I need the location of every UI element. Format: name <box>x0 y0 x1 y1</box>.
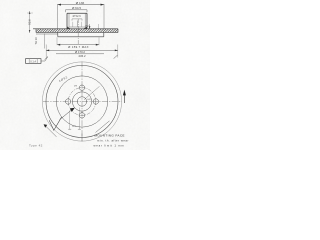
surface finish checkmark <box>49 117 61 130</box>
face arrow (dark) <box>44 124 48 128</box>
extension line right <box>103 4 105 28</box>
ext slash left <box>45 56 48 59</box>
hat inner right wall <box>84 13 86 27</box>
svg-text:Ø 159.7 MAX: Ø 159.7 MAX <box>68 45 89 49</box>
left band inner line <box>36 33 58 35</box>
disc band top edge <box>33 28 118 30</box>
section: outer diameter dimension line <box>58 4 105 6</box>
hub dim ticks <box>68 128 71 130</box>
ext for 159.7 right <box>98 37 100 45</box>
tolerance frame box <box>26 59 42 64</box>
face arrow leader <box>46 126 57 137</box>
hat corner hatch right <box>84 26 88 29</box>
dimension arrowheads <box>58 4 105 6</box>
left height dim arrows <box>29 12 31 33</box>
ext 236.2 right <box>117 45 119 58</box>
disc band hatch fill <box>36 29 118 32</box>
drum right wall <box>103 32 105 36</box>
small arrow near hub <box>70 108 75 112</box>
hat inner dim bracket <box>72 19 82 21</box>
NE leader line <box>84 86 100 100</box>
centerline bottom solid segment <box>81 134 83 142</box>
hat corner hatch left <box>67 26 71 29</box>
outer chamfer circle <box>42 62 121 141</box>
disc band bottom edge <box>36 31 118 33</box>
svg-text:Type 42: Type 42 <box>29 144 43 148</box>
bolt circle (dash-dot) <box>68 88 96 116</box>
hub dim bracket <box>66 10 88 12</box>
hat axis mark <box>77 21 79 28</box>
svg-text:0.1 A: 0.1 A <box>30 59 36 63</box>
right thickness dim arrow <box>89 24 91 28</box>
drum left wall <box>57 32 59 36</box>
bolt hole bottom <box>79 113 84 118</box>
thickness ext line <box>43 34 45 49</box>
hub dim ext left <box>69 111 71 130</box>
front view vertical centerline <box>81 62 83 142</box>
svg-text:MOUNTING FACE: MOUNTING FACE <box>95 133 125 137</box>
ext 236.2 left <box>45 45 47 58</box>
centre bore <box>77 97 86 106</box>
dim line 159.7 <box>57 44 99 46</box>
svg-text:Ø 136: Ø 136 <box>76 1 85 5</box>
tolerance box dividers <box>28 59 30 64</box>
ext for 159.7 left <box>56 37 58 45</box>
hub dim ext right <box>78 108 80 130</box>
front view horizontal centerline <box>43 101 122 103</box>
section axis centerline <box>77 19 79 44</box>
tolerance box leader <box>41 57 48 61</box>
hat top <box>67 12 87 14</box>
bolt hole left <box>66 99 71 104</box>
friction inner circle <box>56 76 107 127</box>
svg-text:236.2: 236.2 <box>79 54 86 58</box>
left height dim line <box>29 11 31 33</box>
mounting face leader <box>96 121 110 133</box>
svg-text:TH 13: TH 13 <box>34 37 38 45</box>
svg-text:min. th. after wear: min. th. after wear <box>97 138 129 142</box>
bolt hole right <box>93 99 98 104</box>
hat inner bottom <box>69 26 85 28</box>
svg-text:wear limit 1 mm: wear limit 1 mm <box>94 143 125 147</box>
section view arrow A <box>123 93 125 104</box>
hat stud marks <box>72 22 74 27</box>
svg-text:Ø 52.6: Ø 52.6 <box>73 14 82 18</box>
hat inner left wall <box>68 13 70 27</box>
ext slash right <box>114 55 118 58</box>
dim line 236.2 <box>46 49 118 51</box>
outer circle 236.2 <box>46 66 118 138</box>
extension line left <box>57 4 59 28</box>
right small ext <box>98 24 100 29</box>
disc band right end <box>117 29 119 33</box>
left ext tick <box>27 12 33 14</box>
dim line lower <box>56 53 104 55</box>
disc band left end <box>35 29 37 33</box>
hat left wall <box>66 13 68 29</box>
hub circle <box>72 92 91 111</box>
hat right wall <box>86 13 88 29</box>
bolt hole top <box>79 85 84 90</box>
svg-text:52.6: 52.6 <box>28 19 32 25</box>
drum bottom <box>58 36 104 38</box>
